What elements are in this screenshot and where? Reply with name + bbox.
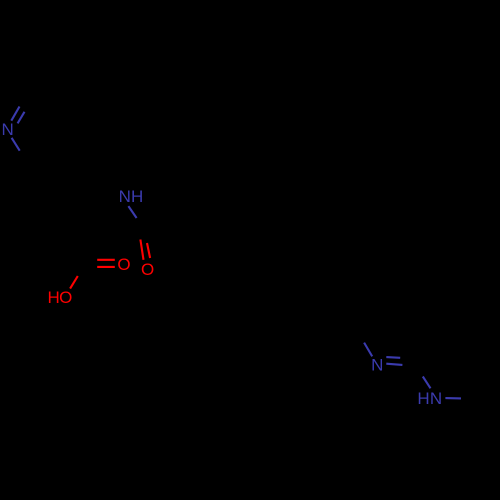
svg-text:H: H: [417, 389, 429, 408]
pyridine N1=C2 double bond inner segment: [18, 112, 25, 124]
svg-text:O: O: [117, 255, 130, 274]
svg-text:H: H: [47, 288, 59, 307]
svg-text:N: N: [371, 356, 383, 375]
hydroxyl O-C bond segment: [70, 276, 78, 289]
svg-text:H: H: [131, 187, 143, 206]
svg-text:O: O: [141, 260, 154, 279]
svg-text:O: O: [59, 288, 72, 307]
amide C=O double bond left line: [140, 240, 143, 260]
N-methyl bond segment: [445, 397, 461, 399]
amidine C-N bond segment: [364, 343, 372, 357]
pyridine N1=C2 double bond outer segment: [11, 107, 19, 121]
svg-text:N: N: [119, 187, 131, 206]
carboxylic acid C=O double bond top line: [97, 259, 115, 261]
amide N-C(=O) bond segment: [128, 206, 136, 218]
pyridine N1-C6 single bond segment: [12, 138, 20, 151]
amide C=O double bond right line: [147, 243, 150, 258]
carboxylic acid C=O double bond bottom line: [97, 266, 115, 268]
amidine N=C double bond bottom line: [386, 364, 402, 365]
svg-text:N: N: [430, 389, 442, 408]
amidine N=C double bond top line: [386, 356, 400, 359]
svg-text:N: N: [1, 120, 13, 139]
amidine C-NH bond segment: [423, 377, 431, 389]
